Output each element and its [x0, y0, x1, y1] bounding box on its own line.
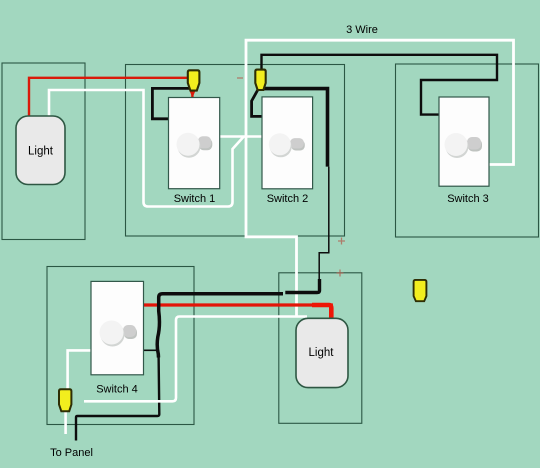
svg-text:3 Wire: 3 Wire [346, 24, 378, 36]
svg-text:Switch 3: Switch 3 [447, 193, 489, 205]
svg-text:Switch 4: Switch 4 [96, 384, 138, 396]
svg-text:To Panel: To Panel [50, 447, 93, 459]
svg-text:Switch 1: Switch 1 [174, 193, 216, 205]
svg-text:Light: Light [309, 347, 335, 359]
svg-text:Light: Light [28, 146, 54, 158]
svg-text:Switch 2: Switch 2 [267, 193, 309, 205]
